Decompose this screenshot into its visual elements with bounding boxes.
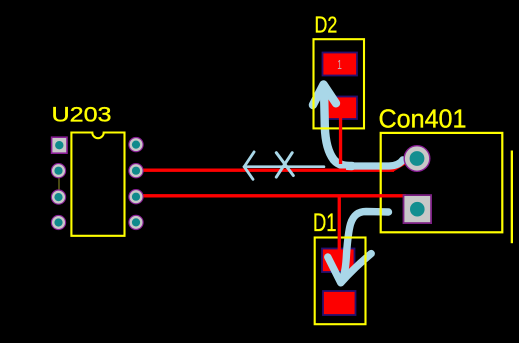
svg-text:U203: U203: [52, 103, 112, 126]
U203 pad 4: [51, 215, 65, 229]
annotation thick blue arrow Con401 pad2 to D1: [328, 212, 389, 283]
U203 pad 6: [129, 190, 143, 204]
U203 pad 2: [51, 164, 65, 178]
wire D1 vertical trace: [338, 195, 341, 251]
connector Con401 outline: [381, 133, 503, 232]
svg-text:1: 1: [337, 58, 342, 72]
ratsnest U203 left pads: [58, 178, 60, 191]
outline fragment at right edge: [511, 151, 513, 244]
Con401 pad 2 (square): [404, 195, 432, 223]
op-amp U203 outline: [71, 133, 124, 236]
U203 pad 7: [129, 164, 143, 178]
svg-text:D1: D1: [313, 209, 337, 237]
diode D1 pad 2: [323, 291, 356, 315]
U203 pad 1 (square): [52, 137, 67, 153]
annotation thick blue arrow D2 to Con401 pad1: [313, 85, 403, 167]
svg-text:Con401: Con401: [379, 106, 467, 134]
U203 pad 5: [129, 215, 143, 229]
Con401 pad 1 (round): [404, 146, 430, 172]
U203 pad 8: [129, 138, 143, 152]
diode D2 pad 1: [323, 53, 358, 76]
diode D1 outline: [315, 238, 366, 325]
U203 pad 3: [51, 190, 65, 204]
wire bottom trace U203.3 to Con401.2: [133, 194, 406, 197]
wire top trace U203.2 to Con401.1: [133, 169, 346, 172]
diode D1 pad 1: [322, 249, 355, 273]
diode D2 outline: [314, 39, 365, 128]
svg-text:D2: D2: [315, 12, 338, 38]
wire D2 vertical trace: [339, 115, 342, 164]
annotation thin blue arrow with X on top trace: [244, 152, 324, 179]
wire top trace segment under arrow tail: [340, 161, 409, 172]
diode D2 pad 2: [323, 97, 358, 120]
